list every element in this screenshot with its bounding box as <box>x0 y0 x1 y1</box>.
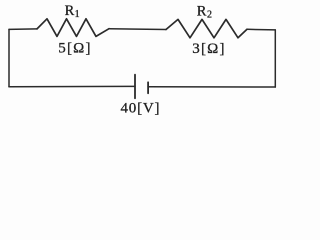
svg-text:5[Ω]: 5[Ω] <box>58 40 91 56</box>
svg-text:R: R <box>65 3 75 19</box>
battery V1 negative plate <box>147 82 149 93</box>
svg-text:40[V]: 40[V] <box>120 101 160 117</box>
wire bottom-left <box>9 85 135 87</box>
wire top-left <box>9 28 37 31</box>
svg-text:1: 1 <box>75 9 80 20</box>
wire right <box>274 30 276 87</box>
svg-text:3[Ω]: 3[Ω] <box>192 41 225 57</box>
resistor R2 <box>166 19 247 37</box>
wire top-right <box>247 28 275 31</box>
label R2 <box>197 4 212 21</box>
wire left <box>8 29 10 86</box>
wire top-middle <box>109 28 166 31</box>
label R1 <box>65 3 80 20</box>
resistor R1 <box>37 19 109 37</box>
battery V1 positive plate <box>134 75 136 99</box>
svg-text:R: R <box>197 4 207 20</box>
svg-text:2: 2 <box>207 9 212 20</box>
wire bottom-right <box>148 86 275 88</box>
